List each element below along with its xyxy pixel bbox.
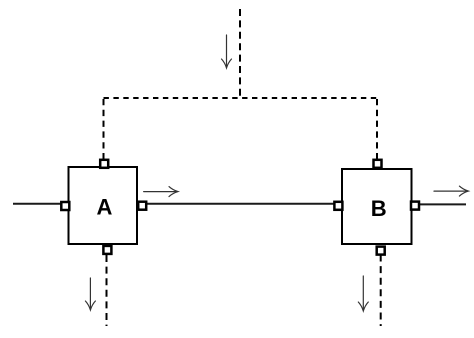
svg-text:A: A (97, 195, 113, 220)
svg-text:B: B (371, 196, 387, 221)
